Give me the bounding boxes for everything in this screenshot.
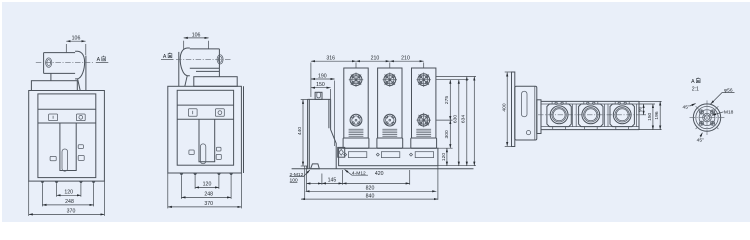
button O (view1) (76, 114, 85, 121)
front panel (view1) (38, 94, 96, 178)
svg-text:440: 440 (297, 127, 303, 135)
button I (view1) (49, 114, 58, 121)
bushing body (view2) (190, 49, 220, 72)
dimension 248 (view2) (181, 176, 231, 199)
right extension lines (view4) (639, 101, 662, 129)
svg-text:A: A (97, 57, 101, 63)
dimension 145 (view3) (322, 170, 343, 185)
mechanism slot (view4) (522, 91, 528, 117)
pole block 2 (view4) (579, 101, 603, 129)
dimension 196 (view4) (654, 101, 660, 129)
top platform (view1) (31, 81, 77, 91)
lower terminal pole1 (view3) (350, 114, 362, 126)
upper terminal pole1 (view3) (349, 73, 363, 87)
svg-text:90: 90 (638, 106, 644, 112)
support column right edge (view2) (218, 68, 220, 77)
pole block 1 (view4) (547, 101, 571, 129)
dimension 120 (view2) (195, 176, 219, 189)
svg-text:420: 420 (375, 171, 384, 177)
svg-text:820: 820 (366, 186, 375, 192)
view label A (view2) (161, 53, 174, 60)
dimension 210 first (view3) (356, 56, 390, 68)
flange holes (699, 110, 714, 125)
overall height extension line (view3) (473, 77, 475, 166)
upper terminal pole2 (view3) (383, 73, 397, 87)
button O (view2) (215, 109, 224, 117)
pole column 1 (view3) (343, 68, 369, 148)
support column left edge (view1) (50, 73, 52, 80)
dimension 420 (view3) (343, 170, 410, 185)
dimension 820 (view3) (306, 186, 437, 192)
dimension 400 (view4) (501, 72, 511, 147)
dimension 300 (view3) (444, 120, 450, 148)
mechanism hole (view4) (526, 131, 530, 135)
small aperture left (view1) (50, 156, 56, 160)
small aperture right lower (view1) (78, 156, 84, 161)
svg-text:145: 145 (328, 178, 337, 184)
right extension lines (view3) (436, 77, 476, 166)
label 45 bottom (697, 133, 704, 144)
svg-text:248: 248 (65, 199, 74, 205)
svg-text:φ56: φ56 (724, 88, 733, 94)
small aperture right lower (view2) (216, 154, 221, 159)
cabinet body (view1) (29, 91, 105, 182)
pole beam (view4) (541, 101, 639, 129)
svg-text:A: A (691, 79, 695, 85)
svg-text:400: 400 (501, 103, 507, 111)
dimension 440 (view3) (297, 99, 307, 166)
pole block 3 (view4) (610, 101, 634, 129)
dimension 190 (view3) (311, 73, 335, 79)
svg-text:190: 190 (318, 73, 327, 79)
handle slot (view2) (200, 144, 205, 164)
dimension 275 (view3) (444, 80, 450, 120)
svg-text:370: 370 (204, 201, 213, 207)
dimension 120 right (view3) (441, 148, 447, 166)
handle slot (view1) (62, 149, 68, 171)
svg-text:2-M12: 2-M12 (290, 172, 304, 178)
feet (view2) (180, 173, 234, 176)
cabinet body (view2) (168, 86, 242, 173)
dimension 316 (view3) (311, 56, 356, 98)
svg-text:210: 210 (371, 56, 380, 62)
svg-text:150: 150 (647, 112, 653, 120)
upper terminal pole3 (view3) (417, 73, 431, 87)
small aperture right upper (view1) (78, 145, 83, 149)
svg-text:150: 150 (316, 82, 325, 88)
top platform (view2) (194, 77, 237, 87)
svg-text:106: 106 (192, 32, 201, 38)
label phi56 (711, 88, 735, 104)
bushing flange (view1) (75, 51, 86, 90)
dimension 100 (view3) (290, 178, 322, 184)
svg-text:120: 120 (203, 182, 212, 188)
dimension 630 (view3) (453, 80, 459, 166)
svg-text:45°: 45° (697, 137, 704, 143)
lower terminal pole3 (view3) (417, 113, 431, 127)
dimension 370 (view2) (168, 173, 242, 208)
bushing body (view1) (44, 53, 76, 74)
bushing terminal ellipse (view2) (217, 55, 223, 64)
small aperture left (view2) (189, 150, 194, 155)
svg-text:316: 316 (326, 56, 335, 62)
svg-text:248: 248 (204, 192, 213, 198)
flange center thread M18 (703, 113, 712, 122)
front panel (view2) (177, 90, 233, 165)
bushing flange (view2) (179, 48, 190, 86)
mechanism box top view (view4) (515, 86, 537, 140)
svg-text:196: 196 (654, 111, 660, 119)
bushing centerline (view1) (36, 62, 94, 64)
mechanism box (view3) (308, 81, 337, 169)
mechanism cap (view3) (315, 92, 322, 99)
svg-text:120: 120 (441, 153, 447, 161)
svg-text:210: 210 (401, 56, 410, 62)
interlock box (view3) (338, 147, 345, 157)
svg-text:45°: 45° (682, 105, 689, 111)
svg-text:106: 106 (72, 36, 81, 42)
anchor foot (view3) (311, 164, 320, 169)
svg-text:275: 275 (444, 96, 450, 104)
dimension 370 (view1) (29, 181, 105, 216)
dimension 90 (view4) (638, 104, 644, 115)
label 4-M12 (view3) (345, 170, 368, 177)
pole column 3 (view3) (411, 68, 437, 148)
base channel (view3) (339, 148, 438, 166)
svg-text:2:1: 2:1 (692, 86, 699, 92)
center column (view1) (60, 123, 76, 171)
svg-text:M18: M18 (724, 109, 734, 115)
dimension 210 second (view3) (390, 56, 424, 68)
floor line (view3) (292, 168, 474, 170)
svg-text:840: 840 (366, 193, 375, 199)
flange bolt circle (699, 110, 715, 126)
cabinet side wall line (view2) (243, 86, 245, 173)
svg-text:370: 370 (67, 209, 76, 215)
label 2-M12 (view3) (290, 170, 310, 178)
button I (view2) (188, 109, 197, 117)
flange bolt circle ring (696, 106, 718, 128)
dimension 150 (view4) (647, 104, 653, 130)
svg-text:A: A (163, 54, 167, 60)
pole column 2 (view3) (377, 68, 403, 148)
dimension 248 (view1) (42, 184, 93, 206)
control band (view1) (38, 109, 96, 123)
beam centerline (view4) (538, 114, 642, 116)
svg-text:100: 100 (290, 178, 298, 184)
dimension 106 (view1) (66, 36, 86, 55)
lower terminal pole2 (view3) (384, 114, 396, 126)
bushing terminal ellipse (view1) (46, 58, 52, 67)
control band (view2) (177, 105, 233, 119)
dimension 840 (view3) (301, 166, 438, 200)
view label A (view1) (96, 56, 109, 63)
extension lines mech box left (view3) (305, 166, 307, 200)
dimension 150 (view3) (311, 82, 331, 99)
dimension 120 (view1) (57, 184, 81, 197)
label M18 (712, 109, 734, 115)
svg-text:634: 634 (461, 115, 467, 123)
small aperture right upper (view2) (216, 147, 221, 151)
mechanism mounting plate (view4) (512, 72, 515, 147)
flange outer circle (693, 104, 720, 131)
svg-text:120: 120 (64, 190, 73, 196)
label 45 top left (682, 104, 695, 111)
detail view label A 2:1 (691, 78, 700, 93)
center column (view2) (199, 119, 215, 162)
dimension 634 (view3) (461, 77, 467, 166)
dimension 106 (view2) (184, 32, 209, 50)
svg-text:300: 300 (444, 130, 450, 138)
beam spacer lines (view4) (573, 104, 637, 127)
flange strip (view4) (537, 100, 541, 134)
flange centerlines (690, 100, 725, 135)
svg-text:630: 630 (453, 115, 459, 123)
feet (view1) (41, 181, 96, 184)
bushing centerline (view2) (176, 58, 232, 60)
